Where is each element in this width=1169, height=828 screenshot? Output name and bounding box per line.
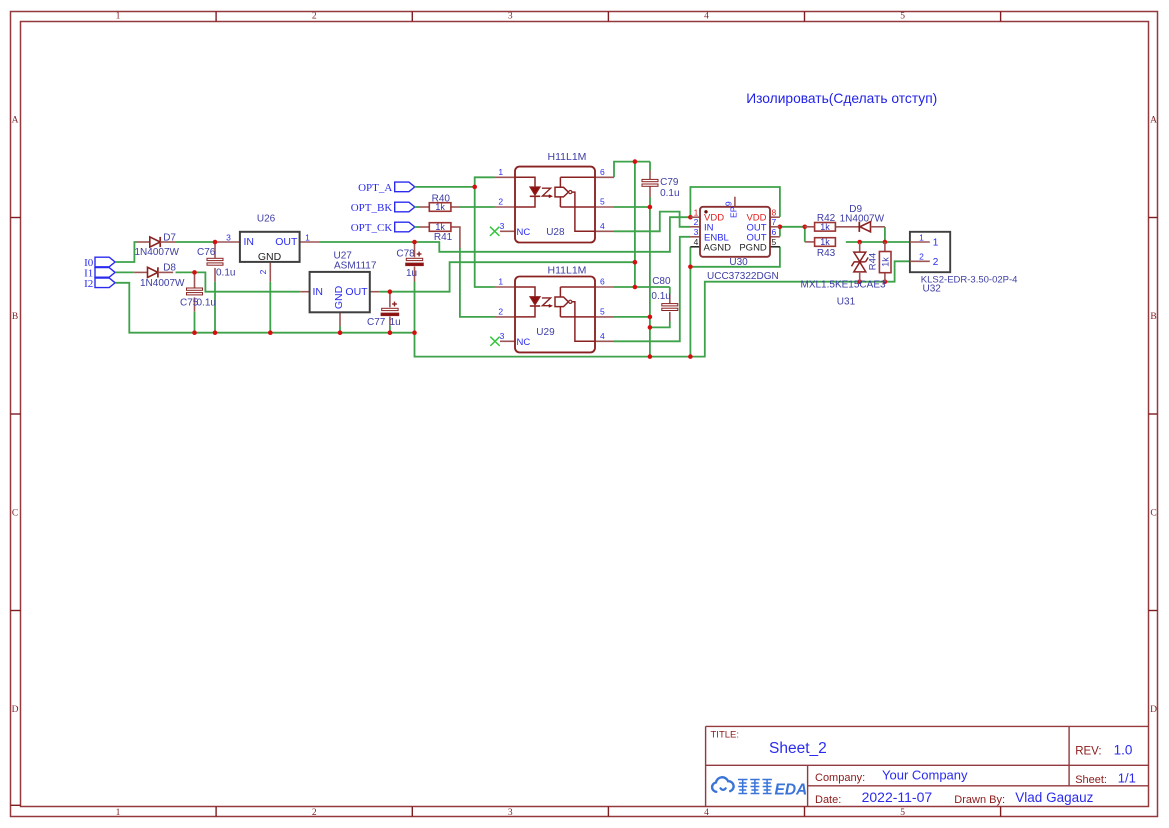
title block: [706, 726, 1149, 807]
wire U30 OUT bridge: [780, 226, 805, 228]
wire C76 bottom pin: [214, 268, 216, 282]
wire U30 VDD loop to pin8: [690, 187, 780, 217]
svg-text:0.1u: 0.1u: [651, 291, 670, 302]
capacitor C75: [180, 288, 216, 309]
svg-text:0.1u: 0.1u: [660, 188, 679, 199]
junction GND rail A: [648, 354, 653, 359]
capacitor C79: [642, 177, 680, 199]
svg-text:H11L1M: H11L1M: [548, 151, 587, 163]
svg-text:4: 4: [600, 331, 605, 341]
svg-text:Sheet_2: Sheet_2: [769, 740, 827, 757]
svg-text:3: 3: [508, 808, 513, 818]
svg-text:NC: NC: [517, 337, 531, 348]
wire C80 top link: [669, 287, 671, 295]
junction C75 GND: [192, 330, 197, 335]
svg-text:6: 6: [772, 227, 777, 237]
svg-text:3: 3: [694, 227, 699, 237]
wire C77 to GND rail: [389, 326, 391, 333]
wire R43 to U32 pin1: [846, 241, 910, 243]
wire I1 to D8: [115, 271, 134, 273]
junction C77 GND: [388, 330, 393, 335]
resistor R43: [805, 237, 836, 259]
gate driver U30: [690, 197, 780, 282]
junction U30 OUT node A: [778, 225, 783, 230]
svg-text:C: C: [1150, 508, 1156, 518]
wire U29 pin6 to C80: [614, 286, 670, 288]
svg-text:REV:: REV:: [1075, 746, 1101, 758]
svg-text:NC: NC: [517, 227, 531, 238]
polarized capacitor C78: [396, 248, 423, 279]
svg-text:2: 2: [919, 252, 924, 262]
wire R40 to U28 pin2: [460, 206, 495, 208]
svg-text:H11L1M: H11L1M: [548, 265, 587, 277]
wire C77 bottom pin: [389, 317, 391, 326]
svg-text:1k: 1k: [820, 237, 830, 247]
wire U27 GND pin stub: [339, 312, 341, 326]
wire I0 to D7: [115, 242, 136, 262]
svg-text:PGND: PGND: [739, 243, 767, 254]
junction U28 pin5 node: [648, 205, 653, 210]
svg-text:2: 2: [498, 197, 503, 207]
svg-text:6: 6: [600, 167, 605, 177]
svg-text:5: 5: [600, 307, 605, 317]
wire OPT_BK to R40: [415, 206, 420, 208]
svg-text:1: 1: [116, 808, 121, 818]
svg-text:2: 2: [258, 269, 268, 274]
svg-text:U30: U30: [729, 257, 748, 268]
svg-text:UCC37322DGN: UCC37322DGN: [707, 271, 779, 282]
wire C75 to GND rail: [194, 312, 196, 333]
net flag OPT_CK: [351, 222, 415, 234]
svg-text:GND: GND: [258, 251, 282, 263]
regulator U27: [300, 250, 380, 312]
svg-text:5: 5: [600, 197, 605, 207]
svg-text:A: A: [1150, 115, 1157, 125]
diode D8: [134, 262, 185, 288]
svg-text:U31: U31: [837, 296, 856, 307]
wire C78 bottom pin: [414, 267, 416, 282]
net flag I0: [84, 257, 115, 269]
wire node to U28 pin1: [475, 177, 495, 187]
wire C78 top pin: [414, 243, 416, 257]
junction D8/C75 node: [192, 270, 197, 275]
junction U31 top node: [857, 240, 862, 245]
svg-text:B: B: [12, 312, 18, 322]
svg-text:3: 3: [226, 232, 231, 242]
svg-text:1: 1: [305, 232, 310, 242]
svg-text:R44: R44: [868, 253, 879, 270]
wire C75 bottom pin: [194, 297, 196, 311]
svg-text:2022-11-07: 2022-11-07: [862, 789, 933, 805]
svg-text:D: D: [12, 705, 19, 715]
wire node to U29 pin1: [475, 187, 495, 287]
svg-text:3: 3: [508, 12, 513, 22]
svg-text:1N4007W: 1N4007W: [840, 214, 885, 225]
svg-text:2: 2: [694, 217, 699, 227]
svg-text:R42: R42: [817, 213, 836, 224]
svg-text:C79: C79: [660, 177, 679, 188]
TVS diode U31: [801, 242, 886, 307]
junction U26 GND: [268, 330, 273, 335]
wire GND vertical: [649, 207, 651, 357]
svg-text:A: A: [12, 115, 19, 125]
svg-text:3: 3: [500, 331, 505, 341]
junction C76/D7 node: [213, 240, 218, 245]
svg-text:C: C: [12, 508, 18, 518]
svg-text:2: 2: [312, 808, 317, 818]
svg-text:4: 4: [704, 808, 709, 818]
wire C80 bottom pin: [669, 312, 671, 321]
svg-text:I2: I2: [84, 278, 93, 290]
svg-text:Date:: Date:: [815, 794, 841, 806]
junction R44 top node: [883, 240, 888, 245]
svg-text:Vlad Gagauz: Vlad Gagauz: [1015, 790, 1093, 805]
wire C80 top pin: [669, 295, 671, 304]
junction U27 GND: [338, 330, 343, 335]
wire C75 top pin: [194, 273, 196, 288]
svg-text:C80: C80: [652, 276, 671, 287]
wire U30 PGND to AGND: [690, 247, 780, 267]
svg-text:9: 9: [723, 201, 733, 206]
R41 pin stubs: [420, 226, 429, 228]
wire U26 pin2 stub: [269, 263, 271, 282]
svg-text:5: 5: [900, 808, 905, 818]
junction VDD mid node: [633, 260, 638, 265]
wire U28 pin4 to U30 IN: [614, 212, 690, 232]
net flag I2: [84, 278, 115, 290]
JLC EDA logo: [712, 777, 807, 798]
wire OPT_A to node: [415, 186, 475, 188]
svg-text:1u: 1u: [406, 268, 417, 279]
svg-text:1N4007W: 1N4007W: [135, 247, 180, 258]
svg-text:Your Company: Your Company: [882, 767, 968, 782]
wire node to U27 IN: [195, 272, 301, 291]
svg-text:R41: R41: [434, 232, 453, 243]
svg-text:EP: EP: [728, 206, 738, 218]
wire to R43: [804, 227, 806, 242]
svg-text:0.1u: 0.1u: [197, 298, 216, 309]
svg-text:2: 2: [498, 307, 503, 317]
svg-text:8: 8: [772, 207, 777, 217]
wire U29 pin5 to GND: [614, 316, 650, 318]
svg-text:5: 5: [772, 237, 777, 247]
svg-text:OPT_BK: OPT_BK: [351, 202, 393, 214]
svg-text:4: 4: [704, 12, 709, 22]
capacitor C76: [197, 247, 235, 278]
junction C80 GND: [648, 325, 653, 330]
svg-text:D: D: [1150, 705, 1157, 715]
wire D8 cathode to node: [176, 271, 195, 273]
optocoupler U28: [490, 151, 614, 242]
net flag OPT_A: [358, 182, 415, 194]
svg-text:D7: D7: [163, 232, 176, 243]
svg-text:U28: U28: [546, 227, 565, 238]
wire C78 to GND rail: [414, 282, 416, 333]
svg-text:C78: C78: [396, 248, 415, 259]
junction C79 top node: [633, 159, 638, 164]
regulator U26: [217, 213, 320, 274]
wire OUT to pin6: [779, 227, 781, 237]
svg-text:Drawn By:: Drawn By:: [954, 794, 1005, 806]
svg-text:TITLE:: TITLE:: [711, 730, 740, 741]
R40 pin stubs: [420, 206, 429, 208]
wire D7 cathode to U26 pin3: [176, 241, 218, 243]
diode D9: [835, 204, 885, 232]
svg-text:4: 4: [600, 221, 605, 231]
wire U26 OUT to U30 VDD: [320, 217, 691, 252]
svg-text:D8: D8: [163, 262, 176, 273]
svg-text:1: 1: [694, 207, 699, 217]
wire U30 AGND vertical: [689, 247, 691, 357]
wire U27 OUT to VDD net: [380, 262, 635, 292]
svg-text:U29: U29: [536, 327, 555, 338]
junction U30 OUT node B: [803, 225, 808, 230]
wire R41 corner: [459, 227, 461, 248]
svg-text:IN: IN: [313, 286, 324, 298]
svg-text:OPT_CK: OPT_CK: [351, 222, 393, 234]
wire OPT_CK to R41: [415, 226, 420, 228]
svg-text:ASM1117: ASM1117: [334, 261, 377, 272]
junction U31 bottom node: [857, 279, 862, 284]
svg-text:OUT: OUT: [345, 286, 368, 298]
wire VDD vertical: [634, 162, 636, 287]
svg-text:1: 1: [919, 232, 924, 242]
resistor R40: [429, 193, 451, 212]
wire C80 bottom to GND: [650, 321, 670, 327]
svg-text:1: 1: [116, 12, 121, 22]
wire C76 top pin: [214, 243, 216, 258]
svg-text:C76: C76: [197, 247, 216, 258]
svg-text:2: 2: [312, 12, 317, 22]
wire C79 top pin: [649, 171, 651, 180]
svg-text:U26: U26: [257, 213, 276, 224]
wire U27 GND to rail: [339, 326, 341, 333]
polarized capacitor C77: [367, 302, 401, 329]
resistor R41: [429, 222, 452, 243]
svg-text:OPT_A: OPT_A: [358, 182, 392, 194]
svg-text:C77: C77: [367, 317, 386, 328]
wire U30 ENBL to U29 pin4: [614, 237, 690, 341]
junction R44 bottom node: [883, 279, 888, 284]
svg-text:3: 3: [500, 221, 505, 231]
wire C79 top link: [649, 162, 651, 171]
svg-text:Company:: Company:: [815, 772, 865, 784]
resistor R42: [805, 213, 836, 232]
svg-text:1: 1: [933, 238, 939, 249]
svg-text:1u: 1u: [390, 317, 401, 328]
junction C78 GND corner: [412, 330, 417, 335]
svg-text:GND: GND: [333, 285, 345, 309]
junction AGND/PGND node: [688, 265, 693, 270]
svg-text:R40: R40: [432, 193, 451, 204]
junction C76 GND: [213, 330, 218, 335]
junction OPT_A node: [472, 185, 477, 190]
wire U28 pin5 to GND node: [614, 206, 650, 208]
wire C77 top pin: [389, 293, 391, 308]
svg-text:1N4007W: 1N4007W: [140, 278, 185, 289]
wire U26 GND to rail: [269, 282, 271, 333]
svg-text:0.1u: 0.1u: [216, 267, 235, 278]
wire C79 bottom link: [649, 197, 651, 207]
svg-text:Изолировать(Сделать отступ): Изолировать(Сделать отступ): [746, 91, 937, 106]
svg-text:MXL1.5KE15CAE3: MXL1.5KE15CAE3: [801, 280, 886, 291]
svg-text:1.0: 1.0: [1114, 742, 1133, 757]
svg-text:B: B: [1150, 312, 1156, 322]
svg-text:U32: U32: [923, 283, 942, 294]
capacitor C80: [651, 276, 677, 311]
svg-text:1: 1: [498, 167, 503, 177]
junction U30 VDD node: [688, 215, 693, 220]
resistor R44: [868, 242, 891, 282]
svg-text:OUT: OUT: [275, 236, 298, 248]
wire D9 down to net: [884, 227, 886, 242]
svg-text:R43: R43: [817, 248, 836, 259]
wire I2 GND rail: [115, 261, 910, 356]
svg-text:EDA: EDA: [775, 782, 808, 799]
svg-text:6: 6: [600, 277, 605, 287]
junction C78/U26-OUT node: [412, 240, 417, 245]
junction GND rail B: [688, 354, 693, 359]
net flag OPT_BK: [351, 202, 415, 214]
junction U27-OUT/C77 node: [388, 289, 393, 294]
junction U29 pin5 GND: [648, 315, 653, 320]
svg-text:1: 1: [498, 277, 503, 287]
optocoupler U29: [490, 265, 614, 353]
svg-text:2: 2: [933, 257, 939, 268]
svg-text:7: 7: [772, 217, 777, 227]
svg-text:4: 4: [694, 237, 699, 247]
wire U28 pin6 to C79: [614, 162, 650, 178]
wire R41 to U29 pin2: [460, 248, 495, 317]
svg-text:1k: 1k: [435, 222, 445, 232]
diode D7: [135, 232, 180, 258]
net flag I1: [84, 268, 115, 280]
svg-text:AGND: AGND: [704, 243, 732, 254]
svg-text:IN: IN: [244, 236, 255, 248]
connector U32: [910, 232, 1018, 294]
svg-text:5: 5: [900, 12, 905, 22]
svg-text:Sheet:: Sheet:: [1075, 774, 1107, 786]
junction U29 pin6 node: [633, 285, 638, 290]
svg-text:1/1: 1/1: [1118, 770, 1136, 785]
wire C79 bottom pin: [649, 186, 651, 197]
wire C76 to GND rail: [214, 282, 216, 333]
svg-text:1k: 1k: [880, 257, 890, 267]
